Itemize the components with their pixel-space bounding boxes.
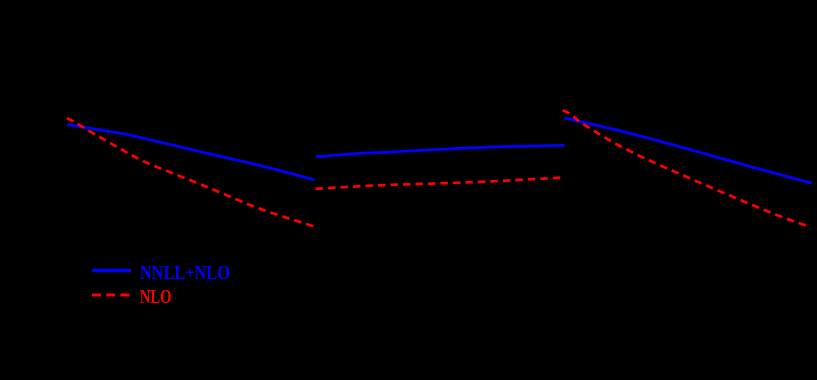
svg-text:NNLL+NLO: NNLL+NLO xyxy=(140,262,230,284)
svg-text:NLO: NLO xyxy=(140,286,172,308)
